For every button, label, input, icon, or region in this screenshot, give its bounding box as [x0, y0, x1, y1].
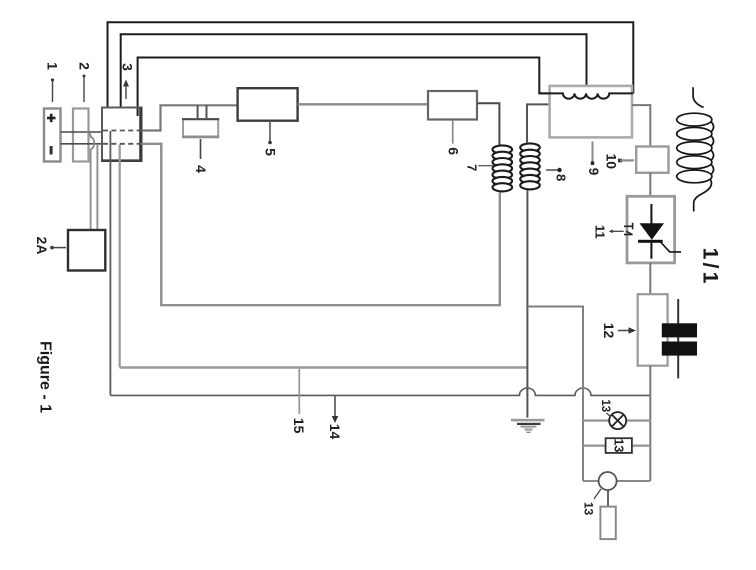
label 1 — [51, 78, 54, 81]
svg-text:15: 15 — [291, 418, 307, 434]
svg-text:14: 14 — [327, 424, 343, 440]
wire branch to box 2A right — [96, 144, 98, 230]
wire dashed contact lower in box 3 — [103, 143, 141, 145]
wire box9 to box10 — [632, 105, 650, 146]
coil 7 — [493, 145, 513, 191]
svg-text:3: 3 — [120, 63, 136, 71]
box 10 — [636, 147, 668, 173]
wire battery plus to box3 — [61, 131, 103, 133]
capacitor plates — [662, 323, 697, 337]
wire box6 to coil 7 — [477, 103, 499, 145]
wire meter to plug — [607, 490, 609, 507]
box 2 — [73, 109, 89, 162]
wire box10 to box11 — [649, 173, 651, 197]
svg-text:13: 13 — [612, 438, 626, 452]
plug box — [600, 507, 615, 539]
wire coil8 top to box 9 — [527, 104, 550, 143]
box 3 — [102, 108, 142, 162]
box 4 — [183, 119, 218, 137]
box 2A — [68, 230, 105, 271]
fuse rung 2 — [583, 445, 606, 447]
wire box3 lower output to loop left — [142, 144, 500, 305]
rail 15 — [120, 366, 528, 369]
svg-text:5: 5 — [263, 148, 279, 156]
wire box3 bottom branch to rail 14 — [109, 131, 111, 395]
rail 14 with hops — [110, 388, 650, 395]
label 10 — [618, 159, 622, 163]
ground — [511, 419, 545, 433]
box 12 — [638, 294, 668, 366]
wire box5 to box6 — [298, 103, 428, 105]
label 3 — [123, 80, 129, 87]
svg-text:2: 2 — [77, 62, 93, 70]
wire dashed contact upper in box 3 — [103, 130, 141, 132]
box 6 — [428, 91, 477, 120]
wire box3 upper output to node — [142, 105, 238, 130]
label 14 — [334, 396, 336, 417]
wire box11 to box12 — [649, 263, 651, 294]
box 5 — [238, 88, 298, 121]
fuse box 13 — [606, 438, 632, 453]
label 7 — [478, 165, 493, 167]
wire coil8 bottom to ground — [526, 190, 528, 418]
label 6 — [452, 120, 454, 144]
wire hop branch to box 2A left — [87, 132, 94, 230]
wire branch to lamp rail — [527, 307, 583, 482]
wire battery minus to box3 — [61, 143, 103, 145]
svg-text:7: 7 — [464, 164, 479, 171]
coil 8 — [520, 143, 540, 189]
svg-text:1/1: 1/1 — [699, 248, 723, 287]
wire branch down to box 4 — [206, 105, 208, 119]
svg-text:6: 6 — [445, 147, 461, 155]
transformer primary winding — [539, 93, 633, 98]
wire top rail A — [108, 22, 634, 108]
label 13 lamp — [607, 413, 612, 417]
wire top rail C — [138, 58, 550, 117]
label 13 meter — [594, 489, 601, 499]
battery 1 — [44, 109, 61, 162]
lamp rung 1 — [583, 419, 609, 421]
wire stub into box 4 — [197, 105, 199, 119]
svg-text:13: 13 — [582, 502, 596, 516]
meter circle 13 — [599, 472, 617, 490]
label 2A — [50, 246, 54, 250]
svg-text:1: 1 — [45, 62, 61, 70]
box 11 thyristor — [627, 196, 675, 263]
wire box3 bottom branch to rail 15 — [119, 145, 121, 368]
label 15 — [298, 369, 300, 414]
svg-text:12: 12 — [601, 323, 617, 339]
wire top rail B — [121, 34, 587, 108]
label 4 — [200, 139, 202, 159]
svg-text:8: 8 — [554, 174, 569, 181]
air coil — [677, 87, 714, 211]
bottom rung 3 — [583, 480, 599, 482]
svg-text:13: 13 — [599, 399, 611, 412]
label 8 — [546, 169, 558, 171]
svg-text:4: 4 — [193, 165, 209, 173]
label 11 — [609, 230, 613, 234]
thyristor D — [638, 204, 681, 259]
lamp 13 — [609, 412, 626, 429]
wire box12 to lamp rail — [649, 366, 651, 481]
svg-text:10: 10 — [604, 154, 620, 170]
box 9 transformer — [550, 86, 632, 137]
label 9 — [592, 142, 594, 162]
label 5 — [269, 121, 271, 141]
capacitor lead — [677, 299, 679, 378]
svg-text:Figure - 1: Figure - 1 — [37, 341, 54, 413]
svg-text:11: 11 — [593, 225, 608, 239]
label 2 — [83, 75, 86, 78]
svg-text:2A: 2A — [34, 237, 50, 255]
svg-text:9: 9 — [586, 168, 601, 176]
